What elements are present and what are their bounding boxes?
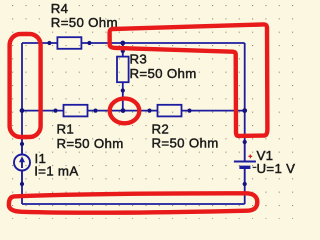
red annotation: top-right hook loop xyxy=(110,24,268,135)
svg-text:R=50 Ohm: R=50 Ohm xyxy=(130,66,197,81)
svg-text:R=50 Ohm: R=50 Ohm xyxy=(51,15,118,30)
resistor R2 pin dots xyxy=(147,109,191,113)
wire R3 top stub xyxy=(122,43,124,51)
wire bottom xyxy=(22,203,245,205)
wire R3 bottom stub xyxy=(122,91,124,111)
wire middle center xyxy=(96,110,150,112)
current source I1 arrowhead xyxy=(19,156,25,162)
wire top horizontal right of R4 xyxy=(89,42,244,44)
resistor R4 pin dots xyxy=(47,41,91,45)
resistor R2 xyxy=(150,105,190,117)
red annotation: left loop around current source branch xyxy=(10,34,41,137)
wire bottom right xyxy=(244,184,246,204)
current source I1 pin dots xyxy=(20,142,24,186)
svg-text:I=1 mA: I=1 mA xyxy=(34,163,78,178)
red annotation: bottom loop around ground wire xyxy=(9,193,257,213)
wire left vertical to I1 xyxy=(21,111,23,144)
resistor R3 pin dots xyxy=(121,49,125,93)
voltage source V1 minus mark xyxy=(253,166,257,168)
current source I1 xyxy=(14,144,30,184)
wire left vertical upper xyxy=(21,43,23,111)
wire right vertical to V1 xyxy=(244,111,246,142)
node junction right (middle row) xyxy=(242,108,247,113)
node junction center xyxy=(121,108,126,113)
voltage source V1 pin dots xyxy=(243,140,247,186)
wire middle right xyxy=(190,110,245,112)
svg-text:R3: R3 xyxy=(130,52,148,67)
voltage source V1 xyxy=(234,142,256,184)
wire middle left xyxy=(22,110,56,112)
svg-text:R4: R4 xyxy=(51,1,69,16)
node junction top (R3 to top wire) xyxy=(120,41,125,46)
resistor R1 xyxy=(56,105,96,117)
voltage source V1 plus mark xyxy=(248,155,252,159)
wire top-left horizontal xyxy=(22,42,49,44)
resistor R4 xyxy=(49,37,89,49)
resistor R1 pin dots xyxy=(53,109,97,113)
resistor R3 xyxy=(117,51,129,91)
svg-text:R1: R1 xyxy=(57,121,75,136)
wire right vertical upper xyxy=(244,43,246,111)
svg-text:R=50 Ohm: R=50 Ohm xyxy=(57,136,124,151)
svg-text:U=1 V: U=1 V xyxy=(257,161,296,176)
red annotation: circle around center node xyxy=(110,99,140,124)
node junction left (middle row) xyxy=(20,108,25,113)
svg-text:R=50 Ohm: R=50 Ohm xyxy=(152,136,219,151)
wire bottom left xyxy=(21,184,23,204)
svg-text:R2: R2 xyxy=(152,121,170,136)
